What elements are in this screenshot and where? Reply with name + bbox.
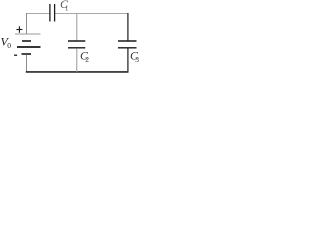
battery V0 short plate 1 [22, 40, 31, 42]
label V0 [1, 34, 12, 50]
minus sign [14, 54, 17, 56]
wire below battery [26, 55, 28, 73]
label C1 [60, 0, 69, 13]
svg-text:2: 2 [85, 55, 89, 64]
capacitor C1 right plate [54, 4, 56, 22]
svg-text:3: 3 [135, 55, 139, 64]
capacitor C1 left plate [49, 4, 51, 22]
svg-text:1: 1 [65, 4, 69, 13]
wire top horizontal right of C1 [55, 13, 129, 15]
plus sign [16, 26, 22, 33]
capacitor C3 bottom plate [118, 47, 137, 49]
label C3 [130, 49, 139, 65]
label C2 [80, 49, 89, 65]
wire right vertical lower (below C3) [127, 48, 129, 72]
battery V0 top long plate [15, 33, 41, 35]
capacitor C2 bottom plate [68, 47, 85, 49]
battery V0 short plate 2 [22, 53, 32, 55]
svg-text:0: 0 [7, 41, 11, 50]
battery V0 long plate 2 [17, 46, 41, 48]
wire left vertical from top wire down to battery [26, 13, 28, 34]
wire top horizontal left of C1 [26, 13, 49, 15]
capacitor C3 top plate [118, 40, 137, 42]
wire middle vertical upper (to C2) [76, 13, 78, 41]
wire right vertical upper (to C3) [127, 13, 129, 41]
capacitor C2 top plate [68, 40, 85, 42]
wire middle vertical lower (below C2) [76, 48, 78, 72]
wire bottom horizontal [26, 71, 129, 73]
